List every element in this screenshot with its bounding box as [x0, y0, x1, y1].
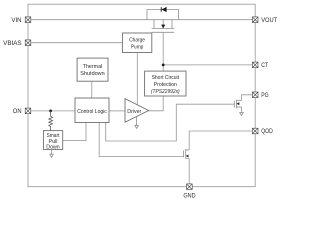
- wire Control Logic to QOD FET gate: [99, 123, 183, 157]
- Short Circuit Protection box U5: [145, 71, 186, 96]
- Thermal Shutdown box U3: [77, 58, 108, 81]
- svg-text:Pump: Pump: [131, 45, 143, 51]
- bulk arrow of Q2: [237, 102, 240, 105]
- ground arrow under driver: [135, 117, 139, 129]
- svg-text:(TPS22992x): (TPS22992x): [151, 89, 180, 95]
- svg-text:Charge: Charge: [129, 38, 145, 44]
- wire CT tap from gate node to CT pin: [163, 64, 255, 66]
- wire gate node vertical: pass FET gate to SCP box: [162, 32, 164, 71]
- wire ON to Control Logic: [28, 110, 75, 112]
- wire Control Logic to Driver: [109, 110, 125, 112]
- ground arrow under Q2: [240, 113, 244, 116]
- wire VIN to VOUT top rail: [28, 19, 255, 21]
- resistor R1 smart pulldown resistor: [49, 111, 53, 131]
- svg-text:Protection: Protection: [154, 82, 177, 88]
- Control Logic box U4: [75, 98, 109, 123]
- wire Control Logic to PG FET gate: [106, 104, 235, 141]
- IC outer boundary: [28, 4, 255, 187]
- transistor Q3 QOD FET: [184, 149, 190, 159]
- svg-text:Driver: Driver: [127, 109, 141, 115]
- transistor Q1 pass FET: [147, 10, 179, 33]
- wire Control Logic to Smart Pull Down: [63, 123, 86, 141]
- Smart Pull Down box U6: [43, 131, 62, 151]
- op-amp U1 gate driver triangle: [125, 99, 149, 123]
- svg-text:Control Logic: Control Logic: [77, 109, 107, 115]
- node A junction dot on ON wire: [49, 110, 52, 113]
- pin ON: [25, 108, 31, 114]
- pin VOUT: [252, 17, 258, 23]
- node B junction dot on gate/CT line: [162, 64, 165, 67]
- wire QOD pin to QOD FET drain: [189, 131, 255, 150]
- wire PG pin to PG FET drain: [242, 95, 256, 101]
- svg-text:GND: GND: [183, 193, 196, 199]
- svg-text:CT: CT: [261, 63, 268, 69]
- svg-text:VBIAS: VBIAS: [3, 41, 21, 47]
- pin QOD: [252, 128, 258, 134]
- svg-text:Shutdown: Shutdown: [80, 71, 104, 77]
- wire QOD FET source to GND pin: [188, 159, 190, 187]
- wire Thermal Shutdown to Control Logic: [91, 81, 93, 98]
- wire SCP box bottom to driver output: [149, 96, 164, 111]
- diode D1 body diode of Q1: [161, 7, 166, 12]
- ground arrow under Smart Pull Down: [50, 150, 54, 158]
- svg-text:PG: PG: [261, 93, 269, 99]
- svg-text:VOUT: VOUT: [261, 18, 277, 24]
- svg-text:Down: Down: [46, 145, 60, 151]
- pin PG: [252, 92, 258, 98]
- wire VBIAS to Charge Pump: [28, 42, 122, 44]
- svg-text:QOD: QOD: [261, 129, 273, 135]
- bulk arrow of Q1: [161, 25, 165, 29]
- Charge Pump box U2: [122, 33, 151, 53]
- bulk arrow of Q3: [186, 155, 189, 158]
- svg-text:ON: ON: [13, 109, 22, 115]
- pin GND: [187, 184, 193, 190]
- pin VBIAS: [25, 40, 31, 46]
- wire Charge Pump to Driver top: [136, 53, 138, 105]
- pin VIN: [25, 17, 31, 23]
- svg-text:VIN: VIN: [11, 18, 21, 24]
- pin CT: [252, 62, 258, 68]
- svg-text:Short Circuit: Short Circuit: [152, 75, 180, 81]
- svg-text:Thermal: Thermal: [83, 64, 103, 70]
- transistor Q2 PG open-drain FET: [234, 100, 241, 113]
